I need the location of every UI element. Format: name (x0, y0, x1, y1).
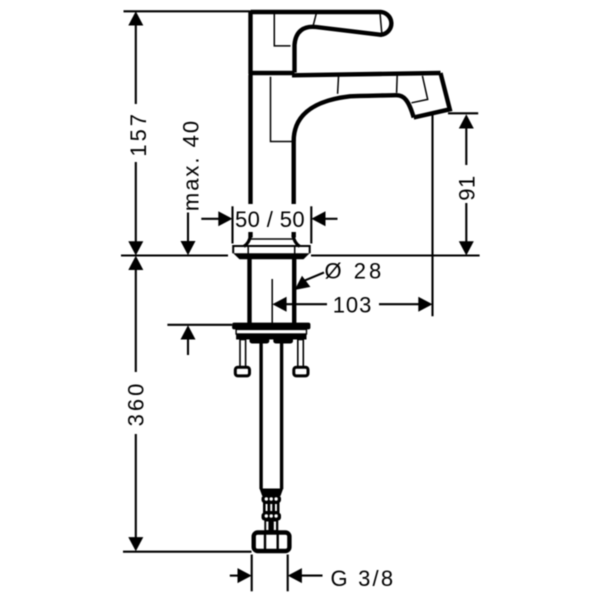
hose taper block (260, 489, 284, 497)
svg-text:Ø 28: Ø 28 (325, 258, 385, 283)
flange left tab (250, 337, 270, 344)
91 dimension line lower (465, 203, 467, 244)
157 dimension line upper (135, 24, 137, 104)
counter extension line right (311, 254, 480, 256)
svg-text:max. 40: max. 40 (178, 119, 203, 211)
103 dimension line left segment (285, 303, 327, 305)
103 vertical extension line (431, 115, 433, 317)
hose ribbed section (262, 496, 282, 533)
top extension line (124, 10, 251, 12)
body internal thin L (271, 77, 294, 142)
50/50 leader right (323, 218, 338, 220)
rod foot right (294, 367, 308, 376)
arrow 91 top up (459, 114, 474, 128)
escutcheon top thin edge (250, 238, 294, 240)
spout thin division 1 (338, 75, 339, 94)
centerline (271, 279, 273, 323)
arrow 91 bottom down (459, 241, 474, 255)
handle lever outline (251, 12, 392, 73)
svg-text:157: 157 (126, 111, 151, 157)
arrow max40 down (181, 241, 196, 255)
max40 line lower tail (187, 337, 189, 355)
rib white dots row 2 (265, 514, 268, 517)
shank column right edge (292, 259, 296, 323)
spout underside arc (294, 95, 414, 141)
svg-text:50 / 50: 50 / 50 (235, 207, 305, 232)
arrow 360 top up (128, 256, 143, 270)
body left edge below label (248, 231, 252, 238)
spout head outline (414, 73, 450, 118)
body right edge below label (292, 231, 296, 238)
arrow 50/50 right (points left) (311, 211, 325, 226)
hex nut G3/8 (254, 533, 290, 552)
bottom-left extension line (123, 551, 252, 553)
svg-text:103: 103 (333, 293, 372, 318)
arrow 157 top up (128, 11, 143, 25)
body left edge (248, 75, 252, 204)
handle base bottom (249, 71, 295, 76)
G38 leader right (299, 575, 323, 577)
max40 extension line at flange (167, 324, 232, 326)
flange right tab (273, 337, 293, 344)
threaded rod left (240, 340, 246, 368)
G38 leader left (230, 575, 240, 577)
escutcheon plate inner vertical right (294, 246, 296, 254)
supply pipe left edge (259, 344, 262, 490)
arrow 50/50 left (points right) (218, 211, 232, 226)
103 dimension line right segment (379, 303, 421, 305)
360 dimension line lower (135, 434, 137, 540)
spout head internal thin line (412, 76, 428, 103)
arrowheads (128, 11, 474, 583)
arrow 360 bottom down (128, 537, 143, 551)
svg-text:91: 91 (455, 175, 480, 200)
svg-text:360: 360 (123, 381, 148, 427)
arrow 157 bottom down (128, 241, 143, 255)
svg-text:G 3/8: G 3/8 (331, 566, 396, 591)
wire (233, 11, 450, 254)
hex nut facet line left (264, 534, 266, 550)
supply pipe right edge (280, 344, 283, 490)
mounting flange black bar (232, 323, 310, 330)
flange white band (236, 329, 306, 334)
G38 extension line left (251, 555, 253, 592)
rod foot left (235, 367, 249, 376)
spout top edge (292, 73, 441, 75)
G38 extension line right (287, 555, 289, 592)
spout thin division 2 (396, 75, 399, 93)
rib white slots (266, 504, 268, 511)
handle thin tick at cap (380, 13, 382, 34)
91 dimension line upper (465, 126, 467, 165)
50/50 leader left (201, 218, 221, 220)
arrow max40 up (181, 325, 196, 339)
shank column left edge (247, 259, 251, 323)
91 top extension line (448, 112, 478, 114)
50/50 extension line left (231, 206, 233, 243)
threaded rod right (298, 340, 304, 368)
arrow 103 right (points right) (418, 297, 432, 312)
handle thin tick mid (313, 13, 316, 26)
rib white slots 2 (266, 522, 268, 531)
escutcheon right flare (293, 235, 300, 246)
arrow G38 left (points right) (238, 568, 252, 583)
flange lower black band (236, 334, 306, 340)
body right edge (292, 140, 296, 204)
handle base left edge (248, 11, 252, 75)
50/50 extension line right (310, 206, 312, 243)
arrow G38 right (points left) (288, 568, 302, 583)
360 dimension line upper (135, 268, 137, 372)
counter extension line left (121, 254, 228, 256)
arrow 103 left (points left) (272, 297, 286, 312)
escutcheon left flare (244, 235, 251, 246)
hex nut facet line right (277, 534, 279, 550)
escutcheon plate outline (233, 246, 310, 253)
rib white dots row 1 (265, 497, 268, 500)
escutcheon black base bar (233, 253, 310, 259)
diameter leader line (304, 273, 324, 281)
label background 50/50 (234, 205, 312, 232)
handle thin internal L (274, 13, 290, 46)
max40 line upper (187, 213, 189, 243)
escutcheon plate inner vertical left (247, 246, 249, 254)
157 dimension line lower (135, 162, 137, 244)
arrow diameter leader (295, 276, 311, 290)
